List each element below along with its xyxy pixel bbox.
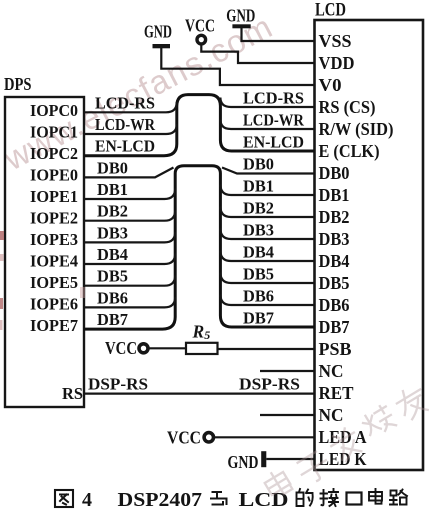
svg-text:VDD: VDD bbox=[319, 53, 355, 73]
svg-text:DB3: DB3 bbox=[97, 223, 128, 242]
svg-text:DB0: DB0 bbox=[319, 163, 350, 183]
svg-text:DB6: DB6 bbox=[319, 295, 350, 315]
wire LCD-WR right bbox=[220, 120, 314, 130]
svg-text:DB0: DB0 bbox=[97, 158, 128, 177]
svg-text:DB5: DB5 bbox=[243, 265, 274, 284]
svg-text:RET: RET bbox=[319, 383, 354, 403]
svg-text:VCC: VCC bbox=[167, 428, 201, 448]
svg-text:DB1: DB1 bbox=[243, 177, 274, 196]
bundle capsule 2 outline (DB7 wire + trunks + top bar) bbox=[84, 166, 315, 329]
svg-text:NC: NC bbox=[319, 361, 344, 381]
svg-text:DB3: DB3 bbox=[319, 229, 350, 249]
svg-text:4: 4 bbox=[82, 489, 92, 511]
caption: 图 4 DSP2407 与 LCD 的接口电路 bbox=[55, 490, 73, 507]
wire GND2 to VSS bbox=[242, 28, 315, 41]
wire VCC to LED A bbox=[214, 436, 315, 438]
svg-text:DB4: DB4 bbox=[243, 243, 274, 262]
wire DB3 left bbox=[84, 232, 175, 243]
wire NC stub 2 bbox=[260, 414, 315, 416]
svg-text:DPS: DPS bbox=[4, 74, 32, 94]
svg-text:LCD-RS: LCD-RS bbox=[95, 93, 155, 112]
ground symbol GND top-right bbox=[226, 6, 255, 29]
svg-text:IOPE6: IOPE6 bbox=[30, 294, 78, 313]
svg-text:IOPE4: IOPE4 bbox=[30, 251, 78, 270]
svg-text:IOPC0: IOPC0 bbox=[30, 101, 78, 120]
resistor R5 bbox=[186, 322, 218, 355]
svg-text:V0: V0 bbox=[319, 75, 342, 95]
svg-text:DB7: DB7 bbox=[319, 317, 350, 337]
svg-text:DB3: DB3 bbox=[243, 221, 274, 240]
svg-text:GND: GND bbox=[226, 6, 255, 26]
wire DB3 right bbox=[220, 229, 314, 240]
svg-text:IOPE7: IOPE7 bbox=[30, 316, 78, 335]
svg-text:EN-LCD: EN-LCD bbox=[243, 133, 304, 152]
watermark edge fragments bbox=[0, 231, 85, 330]
wire LCD-WR left bbox=[84, 124, 177, 134]
svg-text:IOPE2: IOPE2 bbox=[30, 208, 78, 227]
svg-text:LCD-WR: LCD-WR bbox=[243, 111, 305, 130]
wire R5 to PSB bbox=[218, 348, 315, 350]
svg-text:GND: GND bbox=[228, 452, 259, 472]
svg-text:R/W (SID): R/W (SID) bbox=[319, 119, 394, 139]
svg-text:IOPE0: IOPE0 bbox=[30, 166, 78, 185]
bundle capsule 1 outline (EN-LCD wire + trunks + top bar) bbox=[84, 95, 315, 156]
wire DB2 left bbox=[84, 210, 175, 221]
wire GND to LED K bbox=[266, 458, 314, 460]
svg-text:DSP2407: DSP2407 bbox=[118, 489, 203, 511]
wire DSP-RS net (RS to RET) bbox=[84, 393, 315, 395]
LCD box bbox=[315, 20, 424, 470]
wire VCC to VDD bbox=[201, 44, 314, 63]
svg-text:PSB: PSB bbox=[319, 339, 352, 359]
wire DB5 left bbox=[84, 275, 175, 286]
power symbol VCC at LED A bbox=[167, 428, 214, 448]
svg-text:VSS: VSS bbox=[319, 31, 352, 51]
svg-text:RS: RS bbox=[62, 384, 83, 403]
svg-text:DB4: DB4 bbox=[97, 245, 128, 264]
wire LCD-RS right bbox=[220, 98, 314, 108]
svg-text:IOPC1: IOPC1 bbox=[30, 123, 78, 142]
svg-text:DB2: DB2 bbox=[319, 207, 350, 227]
svg-text:DSP-RS: DSP-RS bbox=[239, 375, 300, 394]
wire NC stub 1 bbox=[260, 370, 315, 372]
watermark 电子发烧友 bbox=[262, 383, 431, 500]
wire DB2 right bbox=[220, 207, 314, 218]
svg-text:DSP-RS: DSP-RS bbox=[88, 375, 148, 394]
wire DB5 right bbox=[220, 273, 314, 284]
svg-text:IOPE3: IOPE3 bbox=[30, 230, 78, 249]
wire GND1 to V0 bbox=[161, 48, 314, 85]
svg-text:VCC: VCC bbox=[105, 338, 137, 358]
svg-text:EN-LCD: EN-LCD bbox=[95, 137, 155, 156]
svg-text:DB7: DB7 bbox=[97, 310, 128, 329]
wire DB4 left bbox=[84, 254, 175, 265]
svg-text:RS (CS): RS (CS) bbox=[319, 97, 376, 117]
svg-text:DB1: DB1 bbox=[319, 185, 350, 205]
svg-text:VCC: VCC bbox=[185, 16, 215, 36]
svg-text:IOPC2: IOPC2 bbox=[30, 144, 78, 163]
svg-text:DB5: DB5 bbox=[319, 273, 350, 293]
ground symbol GND at LED K bbox=[228, 451, 267, 472]
svg-text:LCD: LCD bbox=[239, 489, 289, 511]
svg-text:LCD: LCD bbox=[315, 0, 346, 21]
wire DB1 right bbox=[220, 185, 314, 196]
wire LCD-RS left bbox=[84, 102, 177, 112]
svg-text:DB2: DB2 bbox=[243, 199, 274, 218]
svg-text:DB6: DB6 bbox=[97, 288, 128, 307]
svg-text:DB6: DB6 bbox=[243, 287, 274, 306]
wire DB6 right bbox=[220, 295, 314, 306]
svg-text:LCD-WR: LCD-WR bbox=[95, 115, 156, 134]
svg-text:DB1: DB1 bbox=[97, 180, 128, 199]
svg-text:IOPE5: IOPE5 bbox=[30, 273, 78, 292]
wire VCC to R5 bbox=[148, 347, 186, 349]
svg-text:DB7: DB7 bbox=[243, 309, 274, 328]
svg-text:IOPE1: IOPE1 bbox=[30, 187, 78, 206]
svg-text:DB0: DB0 bbox=[243, 155, 274, 174]
DSP box bbox=[5, 97, 84, 407]
wire DB0 right bbox=[222, 168, 315, 174]
svg-text:LCD-RS: LCD-RS bbox=[243, 89, 304, 108]
wire DB1 left bbox=[84, 189, 175, 200]
watermark www.elecfans.com bbox=[0, 7, 279, 178]
svg-text:DB2: DB2 bbox=[97, 202, 128, 221]
wire DB4 right bbox=[220, 251, 314, 262]
svg-text:E (CLK): E (CLK) bbox=[319, 141, 380, 161]
power symbol VCC top bbox=[185, 16, 215, 44]
wire DB6 left bbox=[84, 297, 175, 308]
ground symbol GND top-left bbox=[144, 22, 172, 49]
wire DB0 left bbox=[84, 168, 174, 178]
power symbol VCC at R5 bbox=[105, 338, 148, 358]
svg-text:GND: GND bbox=[144, 22, 172, 42]
svg-text:DB4: DB4 bbox=[319, 251, 350, 271]
svg-text:NC: NC bbox=[319, 405, 344, 425]
svg-text:DB5: DB5 bbox=[97, 267, 128, 286]
